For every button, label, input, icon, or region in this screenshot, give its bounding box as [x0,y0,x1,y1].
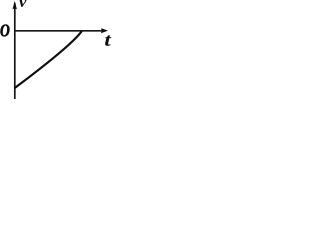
t axis arrowhead [101,28,108,33]
v axis (vertical) [14,3,16,99]
t axis (horizontal) [14,30,102,32]
label O [0,25,9,37]
background [0,0,112,99]
label v [19,0,26,7]
label t [105,35,111,46]
v axis arrowhead [13,1,17,10]
sloped v(t) line [15,32,82,88]
